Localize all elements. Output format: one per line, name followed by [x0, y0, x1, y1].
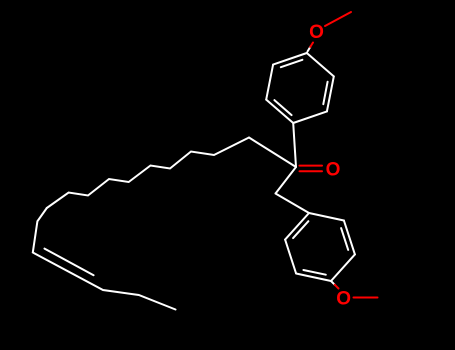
carbonyl C=O double bond	[300, 165, 323, 167]
svg-text:O: O	[336, 289, 351, 310]
svg-text:O: O	[326, 160, 341, 181]
bond O1 to methyl	[325, 12, 351, 26]
bond ring1 top to O1 red part	[310, 43, 313, 48]
wire alkyl chain upper row	[47, 138, 249, 209]
wire chain bond A to carbonyl C	[249, 138, 296, 168]
double bond C=C inner line	[45, 249, 94, 276]
bond ring1 top toward O1 white part	[308, 47, 311, 52]
benzene ring 2 (bottom 4-methoxyphenyl)	[285, 213, 355, 281]
bond ring2 to O3 red part	[335, 285, 339, 289]
bond carbonyl C to CH	[276, 167, 297, 194]
wire chain turn down	[33, 208, 176, 310]
benzene ring 1 (top 4-methoxyphenyl)	[266, 53, 334, 123]
bond O3 to methyl	[354, 297, 378, 299]
bond ring2 toward O3 white part	[331, 281, 335, 285]
bond CH to ring 2	[276, 194, 310, 214]
bond ring1 to carbonyl C	[293, 123, 296, 167]
svg-text:O: O	[309, 22, 324, 43]
